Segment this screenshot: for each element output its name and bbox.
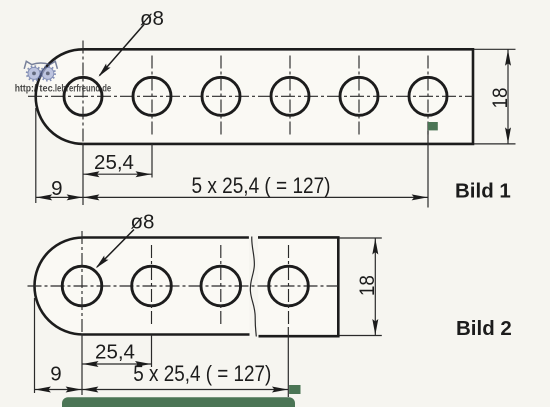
hole H4 vertical centerline bbox=[289, 56, 291, 138]
extension line below hole B2 bbox=[151, 335, 153, 368]
hole H5 bbox=[340, 77, 378, 115]
hole B2 bbox=[132, 266, 172, 306]
hole B4 vertical centerline bbox=[288, 245, 290, 327]
hole H1 bbox=[64, 77, 102, 115]
hole H4 bbox=[271, 77, 309, 115]
dimension 18 Bild 1 bbox=[507, 49, 509, 144]
svg-text:5 x 25,4 ( = 127): 5 x 25,4 ( = 127) bbox=[192, 173, 331, 198]
horizontal centerline Bild 1 bbox=[28, 95, 473, 97]
hole H3 bbox=[202, 77, 240, 115]
break line Bild 2 bbox=[250, 237, 256, 337]
svg-text:25,4: 25,4 bbox=[95, 340, 135, 363]
strip outline Bild 1 bbox=[36, 49, 473, 144]
leader line o8 Bild 1 bbox=[100, 25, 145, 76]
hole H1 vertical centerline bbox=[82, 41, 84, 144]
svg-text:9: 9 bbox=[50, 363, 61, 386]
extension line below hole B1 bbox=[81, 334, 83, 396]
svg-text:18: 18 bbox=[488, 87, 512, 108]
extension line below hole H1 bbox=[82, 143, 84, 205]
dimension 9 Bild 1 bbox=[36, 196, 428, 198]
hole H3 vertical centerline bbox=[220, 56, 222, 138]
horizontal centerline Bild 2 bbox=[28, 285, 339, 287]
hole B1 bbox=[62, 266, 102, 306]
hole H2 vertical centerline bbox=[151, 56, 153, 138]
strip outline right part Bild 2 bbox=[258, 237, 338, 336]
leader line o8 Bild 2 bbox=[97, 230, 134, 268]
hole B3 bbox=[201, 266, 241, 306]
extension line left end Bild 2 bbox=[34, 298, 36, 393]
svg-text:5 x 25,4 ( = 127): 5 x 25,4 ( = 127) bbox=[133, 361, 271, 386]
extension lines width 18 Bild 2 bbox=[339, 237, 382, 239]
green marker square Bild 2 bbox=[289, 385, 300, 394]
dimension 25,4 Bild 2 bbox=[82, 363, 152, 365]
hole H5 vertical centerline bbox=[358, 56, 360, 138]
svg-text:ø8: ø8 bbox=[140, 7, 164, 30]
svg-text:25,4: 25,4 bbox=[94, 151, 134, 174]
extension line left end Bild 1 bbox=[35, 108, 37, 203]
gear eye left bbox=[27, 66, 41, 80]
hole H6 vertical centerline bbox=[427, 56, 429, 138]
green bar bottom bbox=[62, 397, 295, 407]
dimension 9 Bild 2 bbox=[35, 389, 289, 391]
hole B4 bbox=[269, 266, 309, 306]
hole H2 bbox=[133, 77, 171, 115]
extension lines width 18 Bild 1 bbox=[474, 48, 516, 50]
green marker square Bild 1 bbox=[428, 122, 438, 130]
dimension 25,4 Bild 1 bbox=[83, 173, 152, 175]
extension line below hole H2 bbox=[151, 144, 153, 178]
hole B2 vertical centerline bbox=[151, 245, 153, 327]
owl brow and ears bbox=[24, 61, 57, 69]
dimension 5 x 25,4 (=127) Bild 2 bbox=[82, 387, 98, 393]
svg-text:18: 18 bbox=[355, 275, 379, 296]
watermark logo gears (owl) bbox=[24, 61, 57, 80]
svg-text:Bild 2: Bild 2 bbox=[456, 317, 512, 340]
hole B1 vertical centerline bbox=[81, 231, 83, 334]
dimension 5 x 25,4 (=127) Bild 1 bbox=[83, 194, 99, 200]
hole H6 bbox=[409, 77, 447, 115]
watermark url text bbox=[15, 82, 112, 94]
svg-text:http://: http:// bbox=[15, 82, 39, 94]
leader arrowhead o8 Bild 2 bbox=[96, 256, 109, 269]
extension line below hole B4 bbox=[287, 327, 289, 397]
gear eye right bbox=[41, 66, 55, 80]
svg-text:tec: tec bbox=[39, 82, 52, 94]
dimension 18 Bild 2 bbox=[374, 238, 376, 336]
hole B3 vertical centerline bbox=[220, 245, 222, 327]
svg-text:Bild 1: Bild 1 bbox=[455, 180, 511, 203]
extension line below hole H6 bbox=[427, 131, 429, 208]
leader arrowhead o8 Bild 1 bbox=[99, 64, 111, 77]
strip outline left part Bild 2 bbox=[35, 238, 250, 335]
svg-text:9: 9 bbox=[51, 177, 62, 200]
